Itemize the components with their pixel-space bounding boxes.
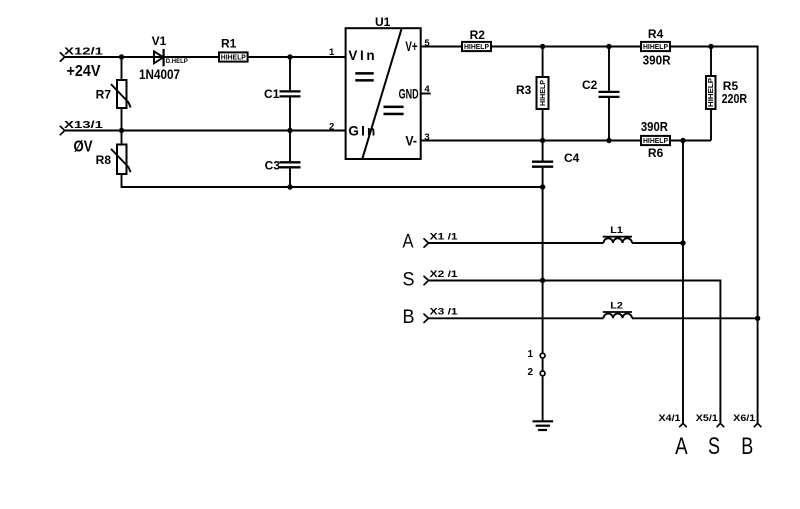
svg-text:R8: R8 [96, 153, 112, 167]
svg-text:C2: C2 [582, 78, 598, 92]
svg-text:X4/1: X4/1 [659, 413, 682, 424]
svg-text:3: 3 [424, 132, 429, 143]
svg-text:C4: C4 [564, 151, 580, 165]
svg-text:R4: R4 [648, 27, 664, 41]
svg-text:V+: V+ [405, 39, 417, 54]
svg-text:1: 1 [527, 349, 533, 360]
svg-text:HIHELP: HIHELP [708, 78, 715, 107]
svg-text:A: A [675, 433, 688, 460]
svg-text:R2: R2 [470, 28, 486, 42]
svg-text:5: 5 [424, 38, 430, 49]
svg-text:X3 /1: X3 /1 [430, 307, 459, 318]
svg-text:2: 2 [329, 121, 334, 132]
svg-text:R5: R5 [723, 79, 739, 93]
svg-text:ØV: ØV [74, 139, 93, 156]
svg-text:X13/1: X13/1 [64, 119, 103, 131]
svg-text:+24V: +24V [67, 63, 101, 80]
svg-text:V-: V- [405, 133, 417, 148]
svg-text:C1: C1 [264, 87, 280, 101]
svg-text:D.HELP: D.HELP [166, 59, 188, 65]
svg-text:HIHELP: HIHELP [221, 55, 246, 62]
svg-text:GND: GND [399, 86, 419, 101]
svg-text:U1: U1 [375, 15, 391, 29]
svg-text:V1: V1 [152, 34, 167, 48]
svg-text:A: A [403, 232, 414, 253]
svg-text:GIn: GIn [348, 123, 377, 138]
svg-text:HIHELP: HIHELP [464, 44, 489, 51]
svg-text:B: B [741, 433, 753, 460]
svg-text:L1: L1 [610, 225, 623, 236]
svg-text:220R: 220R [722, 92, 748, 106]
svg-text:X5/1: X5/1 [696, 413, 719, 424]
svg-text:390R: 390R [643, 54, 671, 68]
svg-text:X6/1: X6/1 [733, 413, 756, 424]
svg-text:S: S [708, 433, 720, 460]
svg-text:X1 /1: X1 /1 [430, 231, 459, 242]
svg-text:2: 2 [527, 367, 533, 378]
svg-text:HIHELP: HIHELP [540, 80, 547, 106]
svg-text:4: 4 [424, 84, 430, 95]
svg-text:R1: R1 [221, 36, 237, 50]
svg-text:1N4007: 1N4007 [139, 67, 180, 82]
svg-text:VIn: VIn [348, 48, 377, 63]
svg-text:R6: R6 [648, 146, 664, 160]
svg-text:R7: R7 [96, 87, 112, 101]
svg-text:L2: L2 [610, 300, 623, 311]
svg-text:390R: 390R [641, 120, 668, 134]
svg-text:C3: C3 [265, 159, 281, 173]
svg-text:HIHELP: HIHELP [643, 138, 668, 145]
svg-text:R3: R3 [516, 83, 532, 97]
svg-text:1: 1 [329, 47, 335, 58]
svg-text:HIHELP: HIHELP [643, 44, 668, 51]
svg-text:X12/1: X12/1 [64, 46, 103, 58]
svg-text:B: B [403, 307, 415, 328]
svg-text:X2 /1: X2 /1 [430, 269, 459, 280]
svg-text:S: S [403, 270, 415, 291]
